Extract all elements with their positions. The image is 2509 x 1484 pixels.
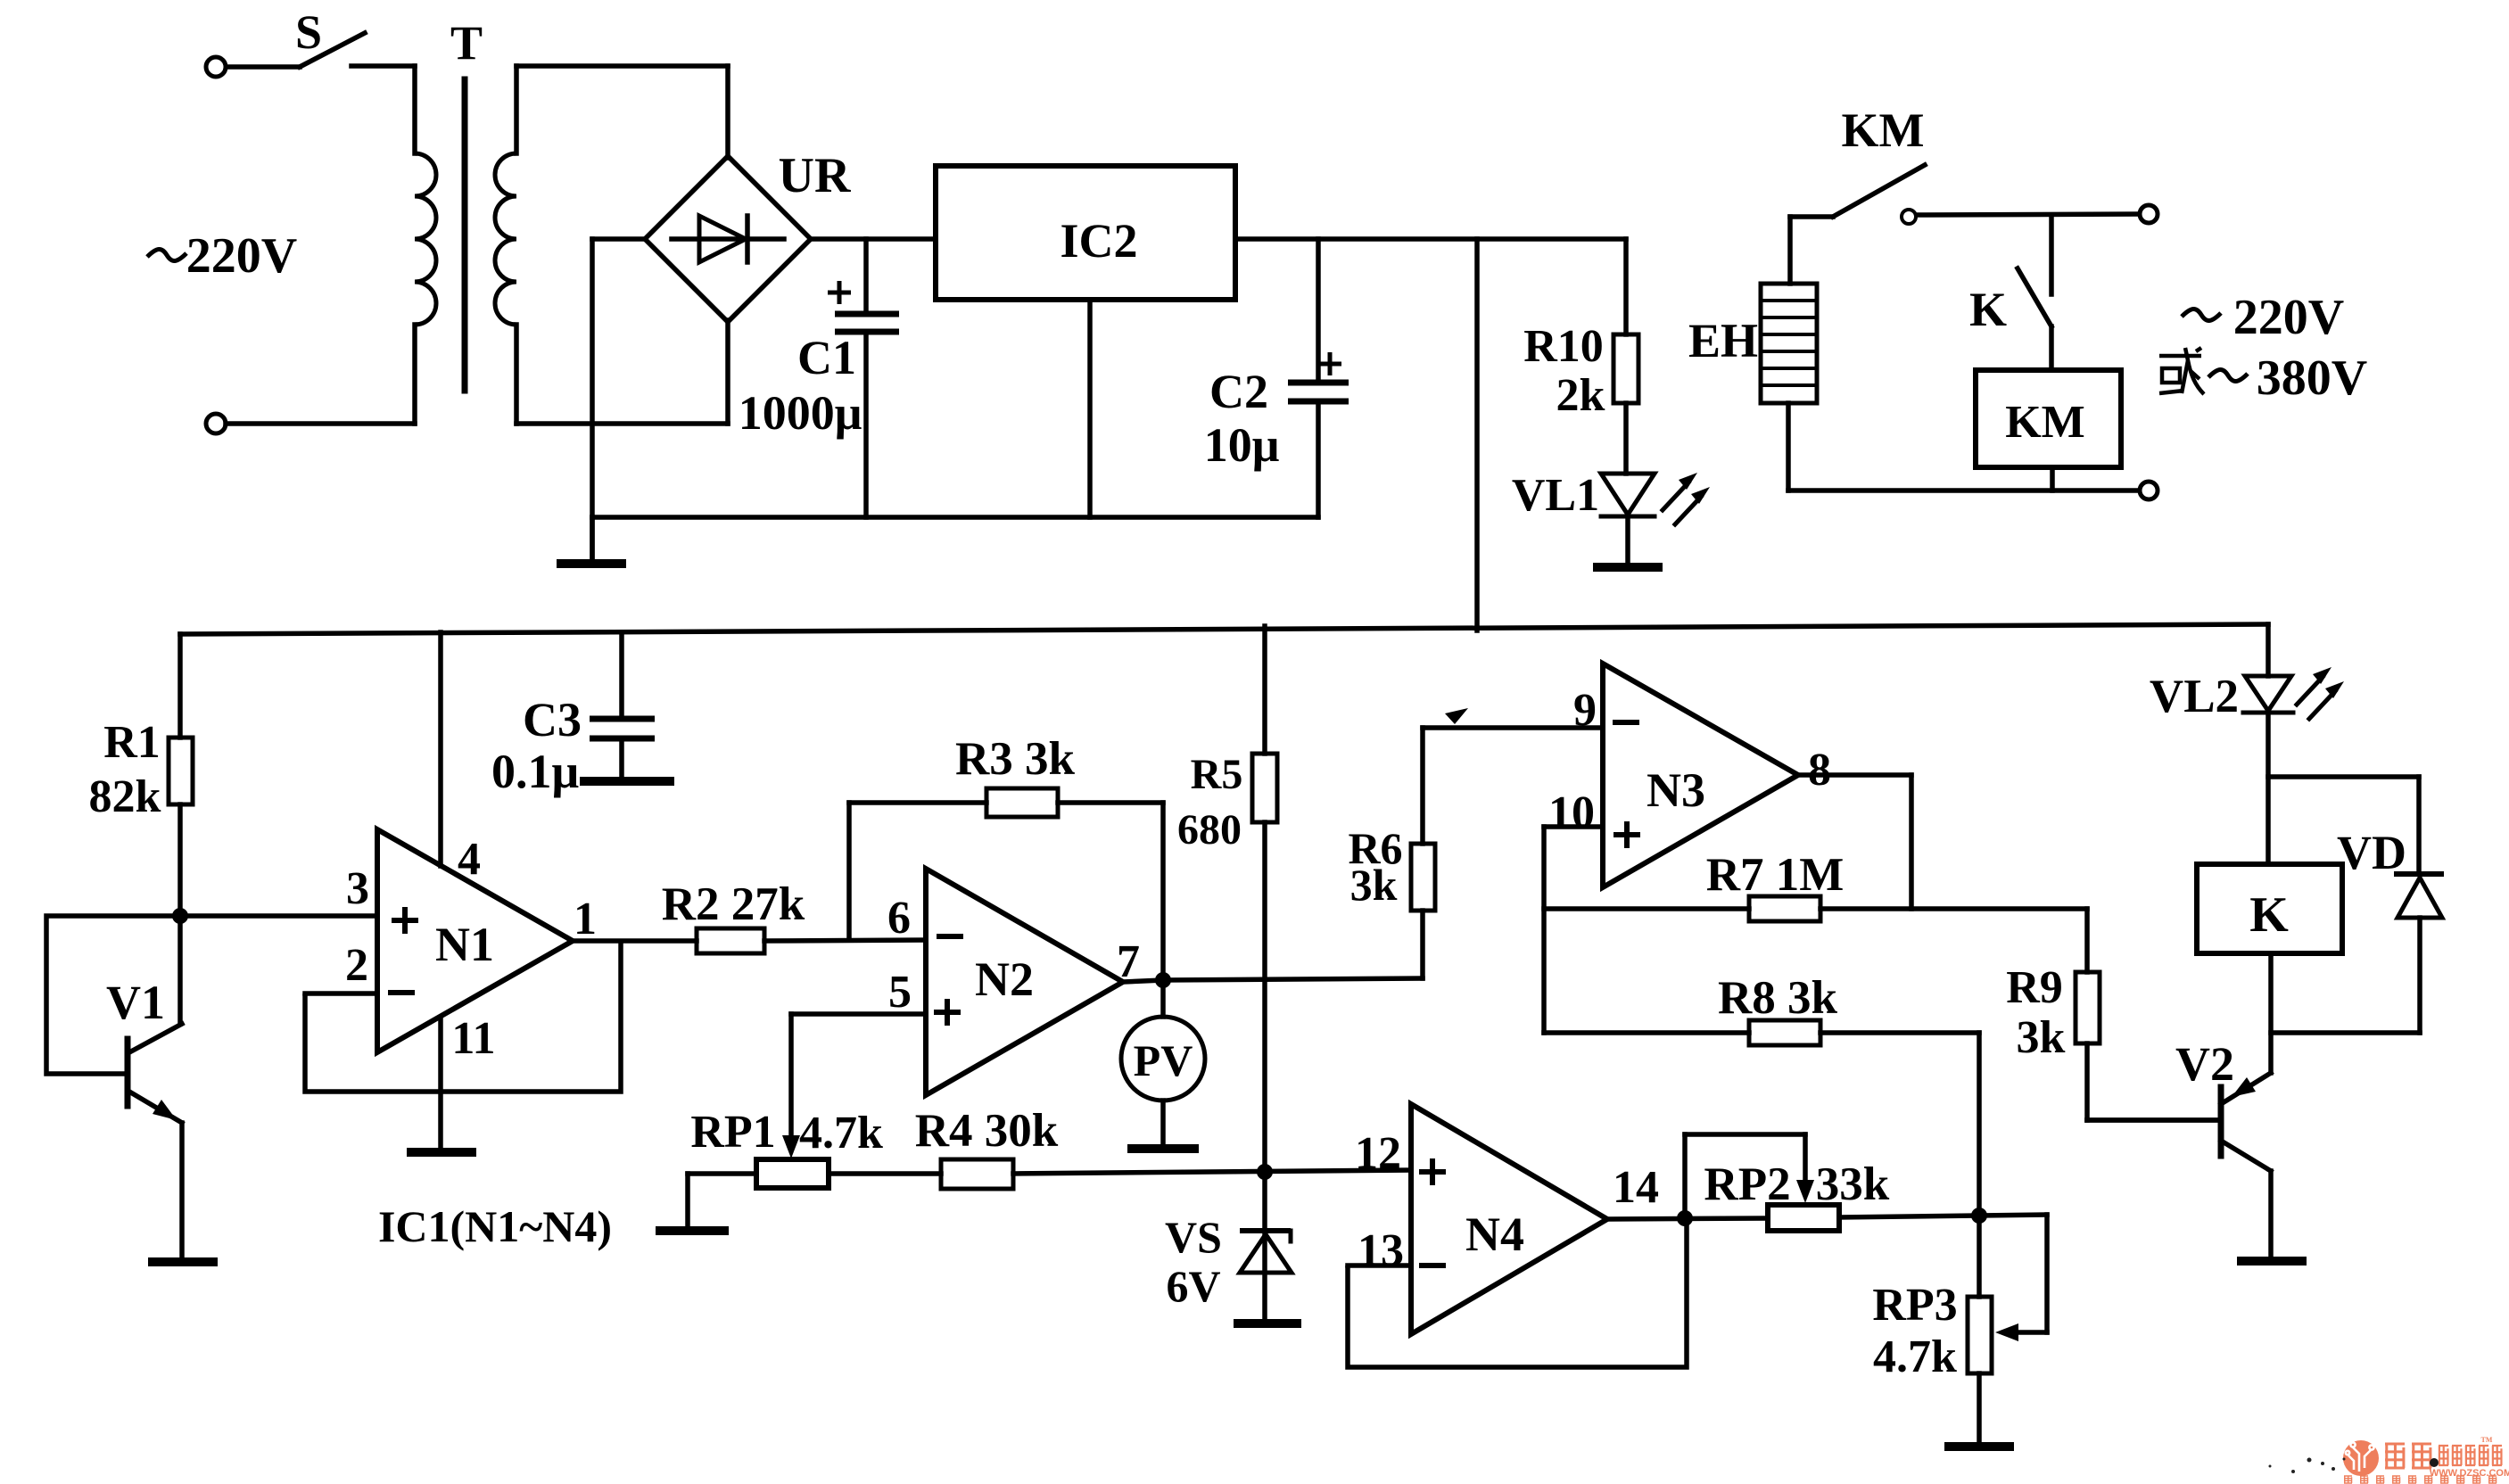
svg-text:3k: 3k [2017, 1012, 2066, 1063]
svg-text:0.1μ: 0.1μ [491, 745, 579, 798]
svg-text:VL2: VL2 [2150, 671, 2239, 722]
svg-text:R5: R5 [1191, 751, 1243, 798]
svg-text:7: 7 [1117, 936, 1140, 987]
svg-text:380V: 380V [2257, 350, 2367, 406]
svg-text:10μ: 10μ [1204, 418, 1280, 472]
svg-text:IC1(N1~N4): IC1(N1~N4) [378, 1201, 612, 1251]
svg-text:KM: KM [2005, 397, 2085, 448]
svg-text:12: 12 [1355, 1128, 1401, 1179]
svg-text:2k: 2k [1556, 370, 1605, 421]
svg-text:3k: 3k [1350, 860, 1398, 910]
svg-text:R2 27k: R2 27k [662, 878, 805, 930]
svg-text:R10: R10 [1523, 321, 1604, 372]
svg-text:1000μ: 1000μ [739, 386, 862, 440]
svg-text:82k: 82k [89, 771, 161, 822]
svg-text:VL1: VL1 [1512, 470, 1599, 521]
svg-text:3: 3 [346, 863, 369, 914]
svg-text:N2: N2 [975, 952, 1034, 1006]
svg-text:4: 4 [458, 834, 481, 885]
svg-text:N3: N3 [1647, 763, 1705, 817]
svg-text:2: 2 [345, 940, 368, 991]
svg-text:14: 14 [1613, 1162, 1659, 1213]
svg-text:220V: 220V [2233, 290, 2344, 345]
svg-text:RP3: RP3 [1872, 1280, 1957, 1331]
svg-text:IC2: IC2 [1060, 214, 1137, 268]
svg-text:V1: V1 [106, 976, 165, 1029]
svg-text:PV: PV [1134, 1035, 1193, 1085]
svg-text:9: 9 [1573, 685, 1597, 736]
svg-text:R4 30k: R4 30k [915, 1105, 1059, 1157]
svg-text:220V: 220V [186, 228, 297, 284]
svg-text:11: 11 [451, 1013, 495, 1064]
svg-text:RP1: RP1 [690, 1107, 775, 1158]
svg-text:R3 3k: R3 3k [955, 733, 1076, 785]
svg-text:K: K [2249, 887, 2289, 943]
svg-text:6: 6 [887, 893, 911, 944]
svg-text:R1: R1 [103, 717, 161, 768]
svg-text:13: 13 [1358, 1225, 1404, 1276]
svg-text:680: 680 [1177, 806, 1242, 853]
svg-text:4.7k: 4.7k [799, 1108, 883, 1158]
svg-text:TM: TM [2481, 1436, 2493, 1444]
svg-text:R8 3k: R8 3k [1718, 972, 1838, 1024]
svg-text:K: K [1969, 283, 2007, 336]
svg-text:C2: C2 [1209, 365, 1268, 418]
svg-text:N4: N4 [1465, 1208, 1524, 1261]
svg-text:1: 1 [574, 894, 597, 944]
svg-text:10: 10 [1548, 787, 1595, 838]
svg-text:KM: KM [1842, 103, 1925, 157]
svg-text:4.7k: 4.7k [1873, 1331, 1957, 1382]
svg-text:C3: C3 [523, 693, 582, 746]
svg-text:EH: EH [1688, 314, 1758, 367]
svg-text:33k: 33k [1816, 1158, 1890, 1210]
svg-text:VS: VS [1165, 1212, 1222, 1262]
svg-text:5: 5 [888, 967, 912, 1018]
svg-text:V2: V2 [2175, 1037, 2234, 1091]
svg-text:R7 1M: R7 1M [1706, 849, 1845, 901]
svg-text:C1: C1 [797, 331, 856, 384]
svg-text:R9: R9 [2006, 962, 2063, 1013]
svg-text:RP2: RP2 [1704, 1158, 1790, 1210]
svg-text:6V: 6V [1166, 1261, 1220, 1311]
svg-text:VD: VD [2337, 826, 2406, 879]
svg-text:8: 8 [1808, 745, 1831, 796]
svg-text:S: S [295, 5, 322, 59]
svg-text:T: T [450, 16, 483, 70]
svg-text:UR: UR [779, 148, 851, 203]
svg-text:N1: N1 [435, 918, 494, 971]
